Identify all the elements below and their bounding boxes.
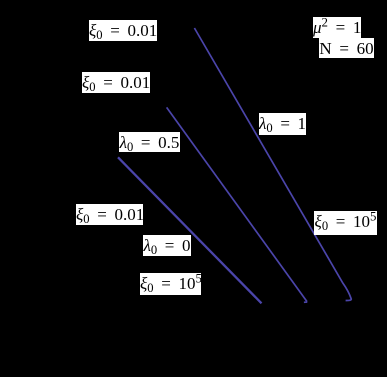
- label xi0=0.01 (top): [89, 20, 157, 41]
- label xi0=10^5 (right): [314, 211, 377, 235]
- label xi0=10^5 (left): [140, 273, 201, 295]
- curve lambda0=1 (right trajectory): [194, 28, 351, 301]
- label lambda0=1: [259, 113, 306, 135]
- label mu^2=1 (top right): [313, 17, 361, 38]
- curve lambda0=0 (left trajectory): [118, 157, 262, 303]
- label lambda0=0: [143, 235, 191, 256]
- label N=60 (top right): [319, 38, 374, 58]
- lambda0=0.5 curve end nub: [304, 301, 307, 303]
- label lambda0=0.5: [119, 132, 180, 152]
- label xi0=0.01 (third): [76, 204, 143, 225]
- curve lambda0=0.5 (middle trajectory): [167, 107, 307, 301]
- label xi0=0.01 (second): [82, 72, 150, 93]
